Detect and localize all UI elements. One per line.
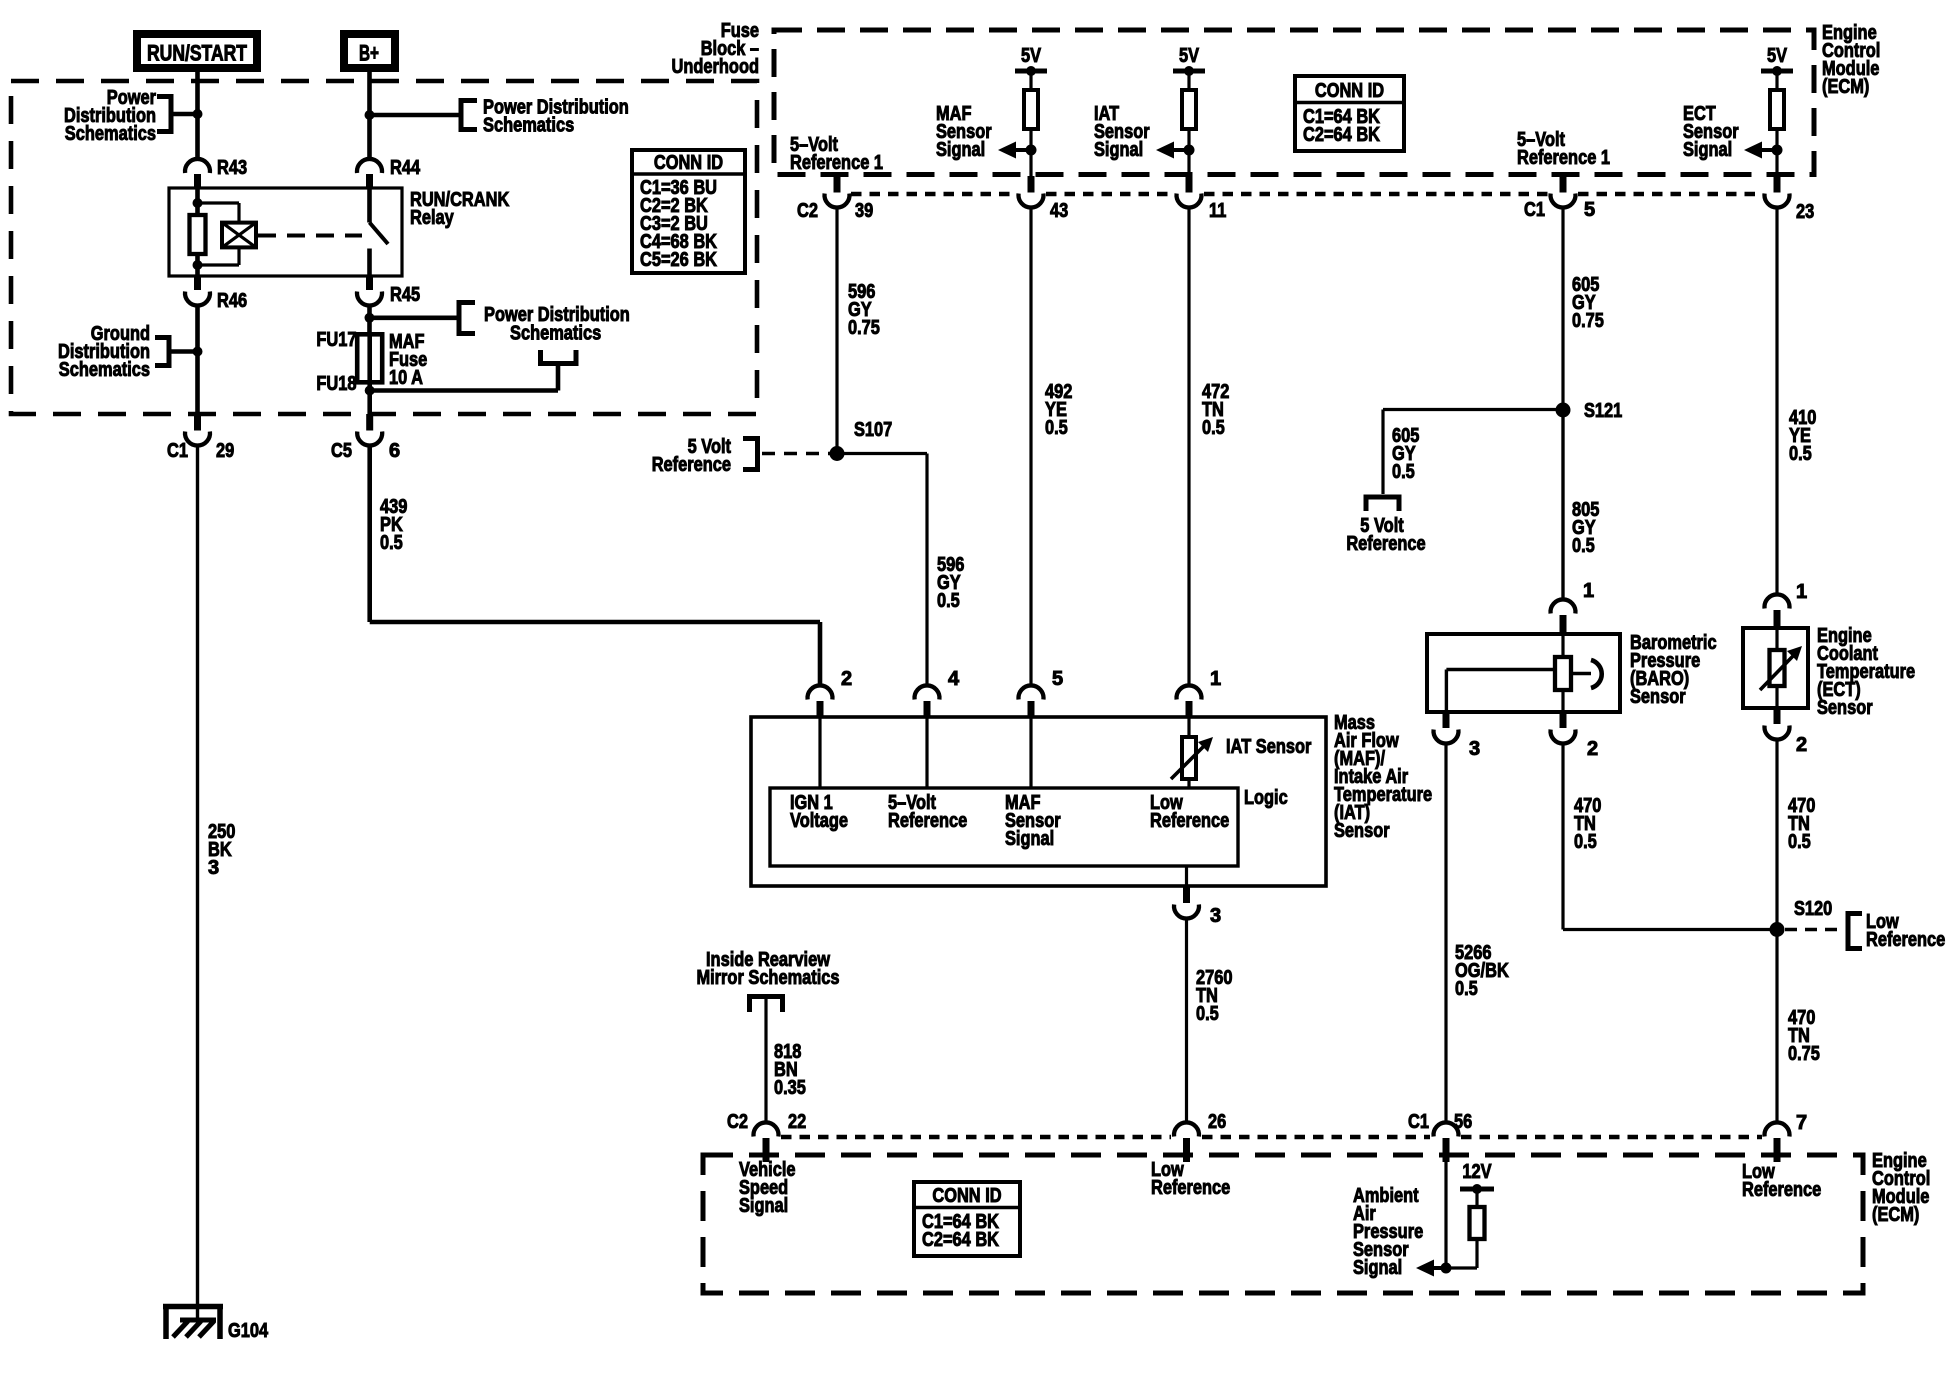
arrow IAT sensor signal: [1156, 142, 1174, 159]
fuse block box (dashed) Fuse Block - Underhood: [11, 81, 757, 414]
svg-text:C5: C5: [331, 440, 352, 462]
wire logic low ref out: [1185, 866, 1188, 886]
svg-text:(ECM): (ECM): [1872, 1204, 1919, 1226]
wire S121 to BARO: [1561, 410, 1564, 600]
label Logic: [1244, 787, 1288, 809]
svg-text:S120: S120: [1794, 898, 1832, 920]
wire 5266 OG/BK 0.5: [1444, 742, 1447, 1123]
wire resistor to node (IAT): [1187, 129, 1190, 176]
wire 5V to resistor (IAT): [1187, 71, 1190, 90]
wire ECT arrow line: [1762, 148, 1777, 152]
node splice S107: [830, 446, 845, 461]
relay switch blade: [370, 223, 389, 245]
label IGN 1 Voltage: [790, 792, 848, 832]
table CONN ID (fuse block): [632, 150, 745, 273]
box B+: [344, 34, 395, 68]
label Low Reference (pin 26): [1151, 1159, 1230, 1199]
connector ECM pin 7: [1765, 1112, 1808, 1162]
node relay coil bottom junction: [193, 260, 203, 270]
svg-text:0.5: 0.5: [1392, 461, 1415, 483]
wire resistor down-left: [1446, 1239, 1477, 1268]
label 492 YE 0.5: [1045, 381, 1072, 439]
svg-text:0.5: 0.5: [1202, 417, 1225, 439]
wire S107 to MAF pin 4: [837, 454, 927, 688]
node splice S121: [1556, 403, 1571, 418]
connector ECT pin 2: [1765, 708, 1808, 756]
label ECT Sensor Signal: [1683, 103, 1739, 161]
label 596 GY 0.5: [937, 554, 964, 612]
svg-text:Mirror Schematics: Mirror Schematics: [696, 967, 839, 989]
power 12V: [1460, 1161, 1494, 1194]
wire fuse output to bracket: [370, 364, 558, 391]
svg-text:11: 11: [1209, 200, 1226, 222]
wire dashed S120 to low ref: [1785, 928, 1845, 932]
connector ECM C1 pin 5: [1524, 176, 1595, 221]
label 818 BN 0.35: [774, 1041, 806, 1099]
svg-text:6: 6: [389, 440, 400, 462]
svg-text:Reference 1: Reference 1: [1517, 147, 1610, 169]
label 605 GY 0.5: [1392, 425, 1419, 483]
label G104: [228, 1320, 269, 1342]
svg-text:C5=26 BK: C5=26 BK: [640, 249, 717, 271]
svg-text:C2: C2: [797, 200, 818, 222]
wire IAT arrow line: [1174, 148, 1189, 152]
label Engine Control Module (ECM) bottom: [1872, 1150, 1930, 1226]
wire 605 GY 0.75: [1561, 208, 1564, 600]
connector ECM pin 11: [1177, 176, 1227, 222]
wire 470 TN 0.5 (ECT): [1775, 738, 1778, 930]
wire BARO internal left branch: [1446, 670, 1555, 713]
svg-text:3: 3: [1210, 905, 1221, 927]
box RUN/START: [137, 34, 257, 68]
wire 250 BK to ground: [196, 444, 199, 1320]
connector BARO pin 3: [1434, 712, 1481, 760]
label IAT Sensor Signal: [1094, 103, 1150, 161]
wire resistor to node (ECT): [1775, 129, 1778, 176]
connector ECM pin 26: [1174, 1111, 1226, 1162]
connector C1 pin 29: [167, 414, 234, 462]
wire MAF pin5 into box: [1029, 717, 1032, 788]
svg-text:Underhood: Underhood: [672, 56, 760, 78]
bracket Low Reference (S120): [1848, 914, 1862, 949]
wire MAF pin2 into box: [818, 717, 821, 788]
label Low Reference (pin1): [1150, 792, 1229, 832]
svg-text:C2=64 BK: C2=64 BK: [922, 1229, 999, 1251]
bracket Power Distribution Schematics (B+): [461, 101, 477, 130]
relay coil X-box: [222, 223, 256, 248]
logic box (MAF internal): [770, 788, 1238, 866]
label Ground Distribution Schematics: [58, 323, 150, 381]
connector ECM C2 pin 39: [797, 176, 873, 222]
svg-text:C2=64 BK: C2=64 BK: [1303, 124, 1380, 146]
svg-text:2: 2: [1587, 738, 1598, 760]
svg-text:1: 1: [1796, 581, 1807, 603]
svg-text:S121: S121: [1584, 400, 1622, 422]
svg-text:2: 2: [1796, 734, 1807, 756]
relay RUN/CRANK box: [169, 188, 402, 276]
label 470 TN 0.5 (ECT): [1788, 795, 1815, 853]
label 410 YE 0.5: [1789, 407, 1816, 465]
svg-text:Signal: Signal: [739, 1195, 788, 1217]
label Power Distribution Schematics (B+): [483, 97, 629, 137]
svg-text:1: 1: [1583, 580, 1594, 602]
label Power Distribution Schematics (R45): [484, 304, 630, 345]
wire 472 TN 0.5: [1187, 208, 1190, 687]
label Low Reference (S120): [1866, 911, 1945, 951]
svg-text:C1: C1: [1408, 1111, 1429, 1133]
wire ECT internal bottom: [1775, 686, 1778, 708]
label 470 TN 0.5 (BARO): [1574, 795, 1601, 853]
svg-text:C2: C2: [727, 1111, 748, 1133]
wire pin 56 down: [1444, 1162, 1447, 1268]
wire 492 YE 0.5: [1029, 208, 1032, 687]
wire to power dist bracket (R45): [370, 315, 460, 320]
svg-text:CONN ID: CONN ID: [654, 152, 723, 174]
wire 410 YE 0.5: [1775, 208, 1778, 595]
connector ECM C1 pin 56: [1408, 1111, 1472, 1162]
wire B+ power branch: [370, 113, 462, 118]
label MAF Sensor Signal: [936, 103, 992, 161]
wire R46 down: [195, 305, 200, 414]
connector R46: [185, 276, 247, 312]
connector BARO pin 2: [1550, 712, 1598, 760]
pressure port symbol BARO: [1570, 660, 1602, 688]
svg-text:Reference: Reference: [1742, 1179, 1821, 1201]
label 2760 TN 0.5: [1196, 967, 1233, 1025]
svg-text:Schematics: Schematics: [65, 123, 156, 145]
connector R45: [357, 276, 420, 306]
svg-text:Sensor: Sensor: [1334, 820, 1390, 842]
label 5 Volt Reference (S121): [1346, 515, 1425, 555]
svg-text:0.75: 0.75: [1788, 1043, 1820, 1065]
svg-text:R43: R43: [217, 157, 247, 179]
label Vehicle Speed Signal: [739, 1159, 796, 1217]
label 805 GY 0.5: [1572, 499, 1599, 557]
svg-text:Sensor: Sensor: [1817, 697, 1873, 719]
sensor box BARO: [1427, 634, 1620, 712]
label Power Distribution Schematics (left): [64, 87, 156, 145]
label 439 PK 0.5: [380, 496, 407, 554]
svg-text:Signal: Signal: [1683, 139, 1732, 161]
wire ECT internal top: [1775, 628, 1778, 650]
connector MAF pin 4: [915, 668, 961, 718]
connector MAF pin 5: [1019, 668, 1064, 718]
table CONN ID (ECM top): [1295, 76, 1404, 151]
label FU17: [316, 329, 356, 351]
svg-text:39: 39: [855, 200, 873, 222]
table CONN ID (ECM bottom): [914, 1182, 1020, 1256]
svg-text:0.5: 0.5: [1455, 978, 1478, 1000]
svg-text:0.5: 0.5: [1574, 831, 1597, 853]
svg-text:CONN ID: CONN ID: [932, 1185, 1001, 1207]
label IAT Sensor: [1226, 736, 1312, 758]
power 5V (IAT): [1173, 45, 1205, 76]
wire 2760 TN 0.5: [1185, 917, 1188, 1123]
resistor ambient air pressure: [1470, 1207, 1485, 1239]
label RUN/CRANK Relay: [410, 189, 510, 229]
sensor box ECT: [1743, 628, 1808, 708]
svg-text:C1: C1: [1524, 199, 1545, 221]
label 596 GY 0.75: [848, 281, 880, 339]
svg-text:0.5: 0.5: [1788, 831, 1811, 853]
wire relay coil bottom: [195, 254, 200, 276]
wire BARO internal bottom: [1561, 690, 1564, 712]
wire 470 TN 0.5 (BARO): [1563, 742, 1777, 930]
svg-text:0.5: 0.5: [1196, 1003, 1219, 1025]
node junction B+ power: [365, 110, 375, 120]
label Engine Control Module (ECM) top: [1822, 22, 1880, 98]
node ECT signal junction: [1772, 145, 1783, 156]
wire BARO internal top: [1561, 634, 1564, 657]
svg-text:26: 26: [1208, 1111, 1226, 1133]
arrow ECT sensor signal: [1744, 142, 1762, 159]
label 5-Volt Reference 1 (right): [1517, 129, 1610, 169]
svg-text:23: 23: [1796, 201, 1814, 223]
svg-text:Voltage: Voltage: [790, 810, 848, 832]
wire B+ down: [367, 72, 372, 157]
svg-text:2: 2: [841, 668, 852, 690]
label 250 BK 3: [208, 821, 235, 879]
wire RUN/START down: [195, 72, 200, 157]
arrow ambient air pressure signal: [1416, 1260, 1446, 1277]
connector MAF pin 1: [1176, 668, 1221, 718]
wire S121 branch: [1383, 410, 1563, 495]
wire below fuse: [367, 382, 372, 414]
wire relay coil top: [195, 188, 200, 215]
label Low Reference (pin 7): [1742, 1161, 1821, 1201]
svg-text:R44: R44: [390, 157, 421, 179]
node splice S120: [1770, 922, 1785, 937]
svg-text:22: 22: [788, 1111, 806, 1133]
connector ECM pin 43: [1019, 176, 1069, 222]
svg-text:Schematics: Schematics: [59, 359, 150, 381]
svg-text:Relay: Relay: [410, 207, 455, 229]
bracket Power Distribution Schematics (left): [157, 97, 198, 132]
wire 818 BN 0.35: [764, 997, 767, 1124]
connector ECT pin 1: [1765, 581, 1808, 630]
ECM box bottom (dashed): [703, 1155, 1863, 1293]
svg-text:R46: R46: [217, 290, 247, 312]
svg-text:0.5: 0.5: [937, 590, 960, 612]
svg-text:5: 5: [1052, 668, 1063, 690]
label 605 GY 0.75: [1572, 274, 1604, 332]
pressure transducer BARO: [1555, 657, 1571, 690]
svg-text:Signal: Signal: [1094, 139, 1143, 161]
wire dotted connector line (top): [851, 192, 1763, 197]
bracket schematic link (fuse output): [541, 350, 577, 364]
wire IAT sensor to logic box: [1187, 779, 1190, 788]
label 5 Volt Reference (S107): [652, 436, 732, 476]
svg-text:4: 4: [948, 668, 960, 690]
connector C5 pin 6: [331, 414, 400, 462]
svg-text:43: 43: [1050, 200, 1068, 222]
node fuse output junction: [365, 386, 375, 396]
svg-text:29: 29: [216, 440, 234, 462]
ECM box top (dashed): [774, 30, 1814, 175]
connector R43: [185, 157, 247, 189]
svg-text:5V: 5V: [1179, 45, 1200, 67]
node MAF signal junction: [1026, 145, 1037, 156]
resistor ECT pullup: [1770, 90, 1784, 129]
thermistor ECT: [1760, 646, 1802, 690]
label MAF Sensor Signal (pin5): [1005, 792, 1061, 850]
node junction RUN/START power: [193, 109, 203, 119]
wire R45 down: [367, 305, 372, 334]
svg-text:0.5: 0.5: [1045, 417, 1068, 439]
wire relay switch feed: [367, 188, 372, 223]
node IAT signal junction: [1184, 145, 1195, 156]
label 470 TN 0.75: [1788, 1007, 1820, 1065]
wire relay coil parallel branch top: [198, 203, 240, 223]
svg-text:Signal: Signal: [936, 139, 985, 161]
wire MAF pin1 to IAT sensor: [1187, 717, 1190, 737]
bracket Ground Distribution Schematics: [155, 338, 198, 366]
node relay coil top junction: [193, 198, 203, 208]
connector MAF pin 2: [808, 668, 853, 718]
svg-text:12V: 12V: [1462, 1161, 1492, 1183]
wire resistor to node (MAF): [1029, 129, 1032, 176]
wire 439 PK: [370, 444, 820, 687]
node R45 power dist junction: [365, 313, 375, 323]
svg-text:Reference: Reference: [888, 810, 967, 832]
wire 5V to resistor (ECT): [1775, 71, 1778, 90]
svg-text:10 A: 10 A: [389, 367, 423, 389]
resistor MAF pullup: [1024, 90, 1038, 129]
svg-text:Reference: Reference: [652, 454, 731, 476]
sensor box MAF/IAT: [751, 717, 1326, 886]
wire relay control dashed: [258, 234, 362, 238]
svg-text:3: 3: [1469, 738, 1480, 760]
bracket Power Distribution Schematics (R45): [459, 303, 475, 334]
svg-text:Schematics: Schematics: [483, 115, 574, 137]
wire dashed to S107: [762, 452, 830, 456]
svg-text:S107: S107: [854, 419, 892, 441]
wire MAF pin4 into box: [925, 717, 928, 788]
svg-text:(ECM): (ECM): [1822, 76, 1869, 98]
svg-text:0.5: 0.5: [380, 532, 403, 554]
label Ambient Air Pressure Sensor Signal: [1353, 1185, 1423, 1279]
svg-text:IAT Sensor: IAT Sensor: [1226, 736, 1312, 758]
svg-text:CONN ID: CONN ID: [1315, 80, 1384, 102]
svg-text:Reference: Reference: [1346, 533, 1425, 555]
svg-text:Reference: Reference: [1866, 929, 1945, 951]
wire MAF arrow line: [1016, 148, 1031, 152]
label Inside Rearview Mirror Schematics: [696, 949, 839, 989]
label MAF Fuse 10 A: [389, 331, 427, 389]
label S121: [1584, 400, 1622, 422]
svg-text:5V: 5V: [1021, 45, 1042, 67]
svg-text:0.35: 0.35: [774, 1077, 806, 1099]
svg-text:R45: R45: [390, 284, 420, 306]
svg-text:1: 1: [1210, 668, 1221, 690]
ground G104: [163, 1304, 223, 1339]
svg-text:Reference: Reference: [1151, 1177, 1230, 1199]
wire relay switch out: [367, 249, 372, 277]
label 5-Volt Reference (pin4): [888, 792, 967, 832]
label Fuse Block - Underhood: [672, 20, 760, 78]
bracket 5 Volt Reference (S107): [743, 439, 758, 470]
svg-text:0.5: 0.5: [1572, 535, 1595, 557]
power 5V (ECT): [1761, 45, 1793, 76]
bracket Inside Rearview Mirror: [750, 997, 783, 1013]
bracket 5 Volt Reference (S121): [1366, 497, 1399, 511]
label FU18: [316, 373, 356, 395]
arrow MAF sensor signal: [998, 142, 1016, 159]
label 5-Volt Reference 1 (left): [790, 134, 883, 174]
wire 596 GY 0.75: [835, 208, 838, 454]
svg-text:3: 3: [208, 857, 219, 879]
svg-text:0.75: 0.75: [848, 317, 880, 339]
fuse FU17/FU18 MAF Fuse 10A: [357, 334, 382, 382]
svg-text:B+: B+: [359, 41, 379, 66]
svg-text:0.5: 0.5: [1789, 443, 1812, 465]
svg-text:Sensor: Sensor: [1630, 686, 1686, 708]
connector R44: [357, 157, 421, 189]
connector MAF pin 3: [1174, 886, 1221, 927]
label 472 TN 0.5: [1202, 381, 1229, 439]
svg-text:5: 5: [1584, 199, 1595, 221]
wire relay coil parallel branch bottom: [198, 247, 240, 265]
label Barometric Pressure (BARO) Sensor: [1630, 632, 1717, 708]
label 5266 OG/BK 0.5: [1455, 942, 1509, 1000]
wire dotted connector line (bottom): [781, 1135, 1762, 1140]
connector ECM C2 pin 22: [727, 1111, 806, 1162]
svg-text:Signal: Signal: [1353, 1257, 1402, 1279]
svg-text:7: 7: [1796, 1112, 1807, 1134]
label S120: [1794, 898, 1832, 920]
svg-text:FU17: FU17: [316, 329, 356, 351]
power 5V (MAF): [1015, 45, 1047, 76]
wire 12V to resistor: [1475, 1189, 1478, 1207]
svg-text:Signal: Signal: [1005, 828, 1054, 850]
wire 5V to resistor (MAF): [1029, 71, 1032, 90]
connector ECM pin 23: [1765, 176, 1815, 223]
connector BARO pin 1: [1550, 580, 1594, 636]
resistor IAT pullup: [1182, 90, 1196, 129]
thermistor IAT sensor: [1171, 737, 1213, 779]
wire 470 TN 0.75: [1775, 930, 1778, 1124]
svg-text:5V: 5V: [1767, 45, 1788, 67]
label Engine Coolant Temperature (ECT) Sensor: [1817, 625, 1915, 719]
svg-text:FU18: FU18: [316, 373, 356, 395]
label S107: [854, 419, 892, 441]
svg-text:G104: G104: [228, 1320, 269, 1342]
svg-text:Schematics: Schematics: [510, 323, 601, 345]
svg-text:C1: C1: [167, 440, 188, 462]
svg-text:RUN/START: RUN/START: [147, 41, 247, 66]
svg-text:Reference 1: Reference 1: [790, 152, 883, 174]
svg-text:Logic: Logic: [1244, 787, 1288, 809]
svg-text:Reference: Reference: [1150, 810, 1229, 832]
label Mass Air Flow (MAF)/ IAT Sensor: [1334, 712, 1432, 842]
node ambient signal junction: [1441, 1263, 1452, 1274]
node ground distribution junction: [193, 347, 203, 357]
relay coil resistor: [190, 215, 206, 254]
svg-text:0.75: 0.75: [1572, 310, 1604, 332]
svg-text:56: 56: [1454, 1111, 1472, 1133]
